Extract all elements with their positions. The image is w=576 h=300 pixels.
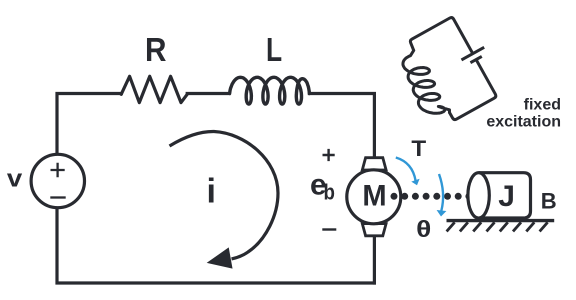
svg-text:B: B (541, 189, 557, 214)
svg-text:R: R (145, 32, 167, 69)
inertia cylinder body (479, 173, 531, 218)
current loop arrow (170, 131, 279, 258)
wire: motor bottom to bottom-right corner (373, 236, 376, 283)
svg-text:fixed: fixed (524, 97, 561, 114)
plus sign in source (51, 163, 65, 177)
blue theta arrow (439, 174, 443, 211)
plus above eb (323, 149, 335, 161)
motor circle (347, 170, 401, 224)
excitation coil (394, 48, 452, 123)
svg-text:J: J (498, 180, 515, 213)
blue torque arrow (396, 158, 416, 181)
battery long plate (461, 47, 484, 60)
wire: bottom (57, 208, 374, 283)
label M (362, 179, 386, 212)
minus sign in source (50, 196, 65, 198)
cylinder left ellipse (468, 173, 489, 218)
motor bottom brush (362, 224, 386, 236)
label theta (416, 217, 431, 242)
svg-text:M: M (362, 179, 386, 212)
svg-text:i: i (206, 173, 215, 211)
label T (411, 136, 426, 161)
svg-text:θ: θ (416, 217, 431, 242)
shaft dotted line (391, 193, 398, 200)
ground line (447, 219, 555, 222)
svg-text:excitation: excitation (486, 114, 561, 131)
wire: L to top-right corner down to motor (309, 94, 374, 159)
svg-text:T: T (411, 136, 426, 161)
wire: top-left segment (57, 94, 121, 155)
svg-text:L: L (266, 32, 282, 68)
voltage source circle (31, 154, 84, 207)
minus below eb (322, 228, 336, 230)
current arrowhead (209, 249, 232, 268)
inductor L (230, 77, 310, 104)
label v (7, 166, 23, 192)
battery short plate (470, 56, 481, 62)
fixed excitation loop (389, 10, 508, 131)
motor top brush (362, 158, 386, 170)
svg-text:b: b (323, 181, 334, 205)
resistor R (121, 76, 187, 102)
label R (145, 32, 167, 69)
wire: between R and L (187, 92, 229, 95)
label L (266, 32, 282, 68)
svg-text:v: v (7, 166, 23, 192)
ground hatches (447, 222, 455, 231)
